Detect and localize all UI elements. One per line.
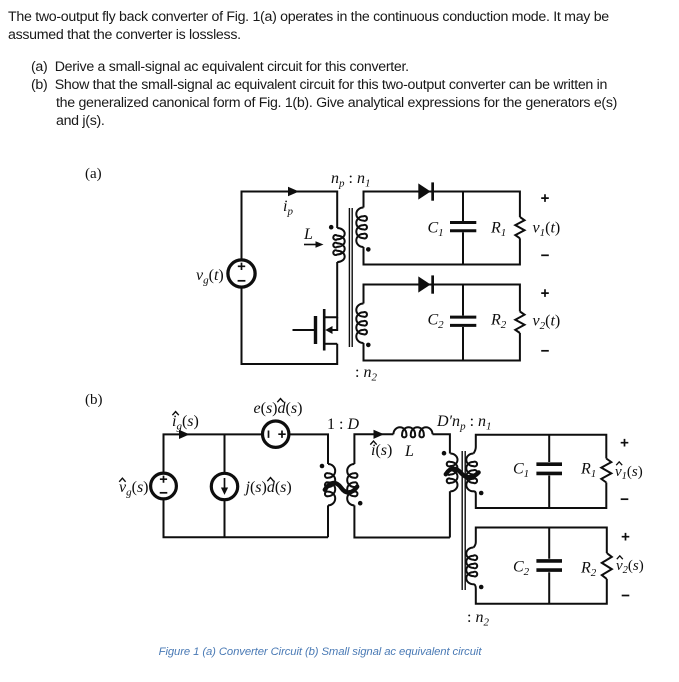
minus v1 (a)	[541, 254, 549, 256]
label L with arrow	[303, 226, 313, 243]
secondary n1 dot	[366, 247, 371, 252]
capacitor C2 plates (b)	[536, 561, 562, 570]
plus v2 (a)	[541, 289, 549, 297]
label (a)	[85, 166, 102, 182]
label v1(s) hat	[615, 464, 643, 482]
mosfet Q1 source stub	[324, 343, 337, 345]
vg(s) plus	[160, 476, 167, 483]
svg-text:C1: C1	[428, 220, 444, 240]
wire n1 to output loop 1 (b)	[474, 435, 607, 508]
vg minus	[238, 280, 246, 282]
svg-text:v1(t): v1(t)	[533, 220, 561, 240]
label D'np : n1	[436, 413, 492, 433]
label vg(s) hat	[119, 479, 149, 499]
mosfet Q1 drain stub	[324, 262, 337, 317]
label (b)	[85, 392, 103, 408]
label e(s)d(s)	[254, 400, 303, 417]
resistor R1 zigzag (b)	[601, 459, 611, 483]
transformer core (a)	[349, 208, 352, 347]
svg-text:: n2: : n2	[467, 609, 489, 629]
plus v1 (a)	[541, 194, 549, 202]
label L (b)	[404, 443, 414, 460]
svg-text:v2(s): v2(s)	[616, 558, 644, 576]
label R1 (a)	[490, 220, 506, 240]
n2 dot (b)	[479, 585, 484, 590]
mosfet Q1 gate bar	[314, 316, 317, 344]
svg-text:vg(t): vg(t)	[196, 267, 224, 287]
wire e source to 1:D primary	[289, 434, 328, 537]
wire bottom (b) left	[164, 499, 329, 537]
winding n2 (b)	[466, 548, 477, 585]
label v2(s) hat	[616, 558, 644, 576]
secondary n2 dot	[366, 343, 371, 348]
svg-text:D′np : n1: D′np : n1	[436, 413, 492, 433]
label ip	[283, 198, 293, 218]
svg-text:R1: R1	[490, 220, 506, 240]
svg-text:np : n1: np : n1	[331, 170, 370, 190]
plus v2 (b)	[622, 533, 630, 541]
label i(s) hat	[371, 442, 392, 459]
voltage source e(s)d(s) circle	[263, 421, 289, 447]
svg-text:ip: ip	[283, 198, 293, 218]
label R2 (b)	[580, 560, 597, 580]
wire output loop 1 (a)	[364, 192, 520, 265]
svg-text:: n2: : n2	[355, 364, 377, 384]
svg-text:L: L	[303, 226, 313, 243]
minus v1 (b)	[621, 498, 629, 500]
resistor R2 zigzag (b)	[602, 553, 612, 579]
secondary winding n1	[356, 208, 367, 248]
svg-text:R2: R2	[490, 312, 507, 332]
label C2 (a)	[428, 312, 445, 332]
n1 dot (b)	[479, 491, 484, 496]
wire top left (b)	[164, 434, 263, 472]
capacitor C1 wire (a)	[462, 192, 464, 265]
label ig(s)	[172, 413, 199, 433]
e source polarity	[269, 431, 286, 438]
diode D1 (a)	[418, 182, 434, 200]
wire output loop 2 (a)	[364, 285, 520, 361]
wire bottom (a)	[242, 287, 338, 364]
mosfet Q1 channel bar	[323, 309, 326, 351]
svg-text:v2(t): v2(t)	[533, 313, 561, 333]
1:D ideal squiggle	[325, 483, 357, 492]
svg-text:e(s)d(s): e(s)d(s)	[254, 400, 303, 417]
plus v1 (b)	[621, 439, 629, 447]
source vg(s) circle (b)	[151, 473, 177, 499]
label C1 (b)	[513, 461, 529, 481]
winding n1 (b)	[466, 454, 477, 492]
label v2(t)	[533, 313, 561, 333]
resistor R1 zigzag (a)	[515, 217, 524, 238]
transformer 1:D primary winding	[325, 464, 335, 505]
minus v2 (b)	[622, 595, 630, 597]
label R2 (a)	[490, 312, 507, 332]
inductor L (b)	[393, 427, 432, 437]
svg-text:L: L	[404, 443, 414, 460]
source vg(t) circle	[228, 260, 255, 287]
svg-text:(b): (b)	[85, 392, 103, 408]
svg-text:R2: R2	[580, 560, 597, 580]
svg-text:v1(s): v1(s)	[615, 464, 643, 482]
diode D2 (a)	[418, 275, 434, 293]
vg plus	[238, 263, 245, 270]
arrow ig on top wire (b)	[179, 430, 190, 439]
svg-text:ig(s): ig(s)	[172, 413, 199, 433]
label j(s)d(s)	[244, 479, 292, 496]
capacitor C2 wire (a)	[462, 285, 464, 361]
current source j(s)d(s) circle	[211, 473, 237, 499]
inductor L primary winding	[333, 228, 344, 262]
j source arrow	[224, 478, 226, 489]
label v1(t)	[533, 220, 561, 240]
svg-text:i(s): i(s)	[371, 442, 392, 459]
minus v2 (a)	[541, 350, 549, 352]
transformer D'np:n1 primary winding	[447, 454, 458, 492]
vg(s) minus	[160, 492, 168, 494]
capacitor C1 wire (b)	[548, 435, 550, 508]
capacitor C2 wire (b)	[548, 528, 550, 604]
capacitor C1 plates (b)	[536, 464, 562, 473]
svg-text:j(s)d(s): j(s)d(s)	[244, 479, 292, 496]
svg-text:1 : D: 1 : D	[327, 416, 359, 433]
svg-text:vg(s): vg(s)	[119, 479, 149, 499]
mosfet Q1 gate lead	[293, 329, 315, 331]
D'np:n1 primary dot	[442, 451, 447, 456]
label 1 : D	[327, 416, 359, 433]
middle branch wire (b)	[224, 434, 226, 537]
wire 1:D secondary to L	[354, 434, 450, 537]
label vg(t)	[196, 267, 224, 287]
resistor R2 zigzag (a)	[515, 312, 524, 334]
D'np:n1 ideal squiggle	[446, 469, 479, 478]
transformer 1:D secondary winding	[347, 464, 357, 505]
label C1 (a)	[428, 220, 444, 240]
label C2 (b)	[513, 559, 530, 579]
svg-text:R1: R1	[580, 461, 596, 481]
svg-text:C2: C2	[513, 559, 530, 579]
transformer core (b)	[462, 451, 465, 590]
label R1 (b)	[580, 461, 596, 481]
capacitor C1 plates (a)	[450, 223, 476, 231]
arrow i(s)	[374, 430, 385, 439]
svg-text:C2: C2	[428, 312, 445, 332]
primary dot	[329, 225, 334, 230]
label :n2 (b)	[467, 609, 489, 629]
capacitor C2 plates (a)	[450, 317, 476, 325]
1:D secondary dot	[358, 501, 363, 506]
wire top left (a): source to primary	[242, 192, 338, 260]
secondary winding n2 (a)	[356, 304, 367, 344]
svg-text:C1: C1	[513, 461, 529, 481]
label :n2 (a)	[355, 364, 377, 384]
1:D primary dot	[320, 464, 325, 469]
wire output loop 2 (b)	[474, 528, 607, 604]
arrow ip on top wire	[288, 187, 299, 197]
label np : n1	[331, 170, 370, 190]
mosfet Q1 body stub with arrow	[330, 317, 337, 330]
svg-text:(a): (a)	[85, 166, 102, 182]
